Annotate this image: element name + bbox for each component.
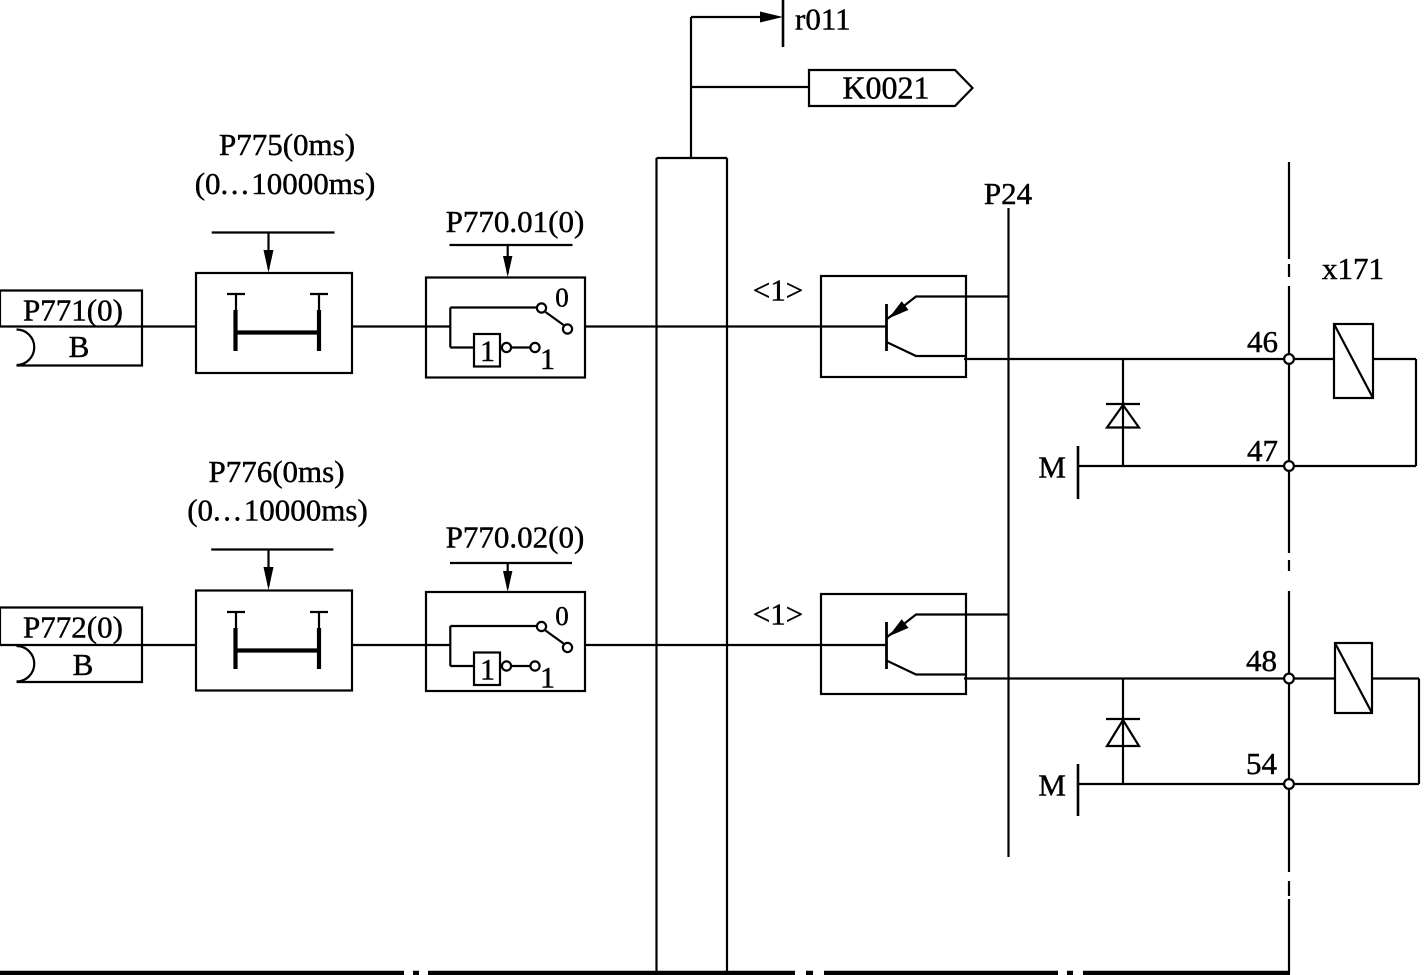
timer T2 symbol base bar <box>234 648 321 652</box>
parameter P770.02 setting line <box>450 562 572 564</box>
diode V4 triangle <box>1107 720 1139 746</box>
parameter P776 arrow stem <box>267 550 269 587</box>
parameter P776 setting line <box>211 548 333 550</box>
wire relay K2 right loop <box>1418 679 1420 785</box>
parameter P770.01 arrow stem <box>507 245 509 273</box>
parameter P775 arrowhead <box>264 250 274 273</box>
timer T1 symbol right stem <box>318 294 320 312</box>
ground M bar row 1 <box>1077 446 1080 499</box>
svg-text:P776(0ms): P776(0ms) <box>208 454 344 489</box>
switch S1 contact circle 1 <box>530 343 539 352</box>
bus junction bar left line <box>655 158 657 973</box>
switch S1 position-1 wire <box>450 346 474 348</box>
transistor V2 input arrow <box>889 619 909 636</box>
connector x171 chain line segment <box>1288 591 1290 872</box>
switch S2 box <box>426 592 585 691</box>
wire P772 to timer T2 <box>0 644 196 646</box>
svg-text:48: 48 <box>1246 643 1277 678</box>
terminal 47 circle <box>1284 461 1294 471</box>
switch S1 inverter box <box>474 334 500 367</box>
diode V3 branch wire <box>1122 359 1124 466</box>
timer T1 symbol right cap <box>310 293 328 295</box>
bottom border segment <box>824 971 1058 975</box>
timer T1 symbol right bar <box>317 310 321 351</box>
switch S2 contact circle 1 <box>530 661 539 670</box>
timer T1 symbol base bar <box>234 330 321 334</box>
transistor V2 collector <box>887 615 1009 638</box>
relay coil K1 diagonal <box>1334 324 1373 398</box>
ground M bar row 2 <box>1077 764 1080 816</box>
parameter P770.01 arrowhead <box>503 256 512 277</box>
binector input block P771 <box>0 291 142 366</box>
svg-text:(0...10000ms): (0...10000ms) <box>195 166 376 201</box>
wire relay K1 right loop <box>1415 359 1417 466</box>
diode V3 cathode bar <box>1106 403 1140 405</box>
parameter P776 arrowhead <box>264 567 274 590</box>
transistor V1 collector <box>887 297 1009 320</box>
wire ground M to terminal 47 and relay K1 return <box>1078 465 1416 467</box>
connector x171 chain line segment <box>1288 162 1290 259</box>
relay coil K2 diagonal <box>1335 643 1372 713</box>
optocoupler V1 box <box>821 276 966 377</box>
parameter P775 setting line <box>212 231 335 233</box>
timer T2 symbol right stem <box>318 612 320 630</box>
parameter P770.02 arrowhead <box>503 571 512 592</box>
bottom border segment <box>0 971 404 975</box>
svg-text:0: 0 <box>555 601 569 631</box>
svg-text:54: 54 <box>1246 746 1278 781</box>
wire bus to r011 branch <box>690 17 692 158</box>
transistor V1 base bar <box>885 304 888 351</box>
svg-text:1: 1 <box>480 654 495 687</box>
wire timer T2 to switch S2 <box>352 644 426 646</box>
switch S2 contact circle 0 <box>537 622 546 631</box>
wire switch S2 output through bus to optocoupler V2 <box>585 644 887 646</box>
svg-text:46: 46 <box>1247 324 1278 359</box>
switch S1 position-0 wire <box>450 306 536 308</box>
timer T2 symbol left cap <box>227 611 245 613</box>
node r011 terminal bar <box>782 0 785 47</box>
wire emitter V2 to terminal 48 and relay K2 <box>964 677 1419 679</box>
transistor V1 emitter <box>887 342 967 356</box>
connector x171 chain line dash <box>1288 264 1290 277</box>
svg-text:1: 1 <box>540 662 555 695</box>
diode V4 branch wire <box>1122 679 1124 785</box>
bottom border dash <box>413 971 419 975</box>
timer T1 symbol left stem <box>235 294 237 312</box>
timer T2 symbol left stem <box>235 612 237 630</box>
svg-text:<1>: <1> <box>753 273 803 308</box>
svg-text:B: B <box>69 329 90 364</box>
switch S1 branch junction <box>449 308 451 348</box>
switch S1 pole circle <box>563 324 572 333</box>
timer T2 symbol right bar <box>317 628 321 669</box>
wire r011 arrow line <box>691 16 776 18</box>
connector x171 chain line dash <box>1288 560 1290 571</box>
switch S1 contact circle 0 <box>537 303 546 312</box>
optocoupler V2 box <box>821 594 966 694</box>
supply rail P24 line <box>1007 208 1009 857</box>
bus junction bar right line <box>726 158 728 973</box>
bottom border segment <box>428 971 795 975</box>
svg-text:1: 1 <box>540 343 555 376</box>
svg-text:(0...10000ms): (0...10000ms) <box>187 493 368 528</box>
binector input block P772 <box>0 608 142 683</box>
timer T2 symbol right cap <box>310 611 328 613</box>
bottom border segment <box>1083 971 1290 975</box>
svg-text:P771(0): P771(0) <box>23 293 123 328</box>
svg-text:<1>: <1> <box>753 597 803 632</box>
svg-text:P24: P24 <box>984 176 1033 211</box>
connector x171 chain line dash <box>1288 881 1290 896</box>
arrowhead to r011 <box>760 12 783 23</box>
switch S2 inverter box <box>474 653 500 686</box>
svg-text:r011: r011 <box>795 2 851 37</box>
bus junction bar top edge <box>657 157 728 159</box>
transistor V2 emitter <box>887 661 967 675</box>
wire P771 to timer T1 <box>0 325 196 327</box>
wire timer T1 to switch S1 <box>352 325 426 327</box>
svg-text:K0021: K0021 <box>842 70 929 106</box>
wire switch S1 output through bus to optocoupler V1 <box>585 325 887 327</box>
connector x171 chain line segment <box>1288 286 1290 553</box>
switch S2 position-1 wire <box>450 665 474 667</box>
timer T2 box <box>196 591 352 691</box>
switch S2 pole circle <box>563 643 572 652</box>
timer T1 box <box>196 273 352 373</box>
wire ground M to terminal 54 and relay K2 return <box>1078 783 1419 785</box>
wire branch to K0021 flag <box>691 86 809 88</box>
diode V4 cathode bar <box>1106 718 1140 720</box>
switch S1 box <box>426 278 585 378</box>
parameter P770.01 setting line <box>450 244 573 246</box>
parameter P775 arrow stem <box>267 233 269 270</box>
wire emitter V1 to terminal 46 and relay K1 <box>964 358 1416 360</box>
svg-text:1: 1 <box>480 335 495 368</box>
diode V3 triangle <box>1107 405 1139 428</box>
svg-text:B: B <box>73 647 94 682</box>
bottom border dash <box>1067 971 1073 975</box>
terminal 54 circle <box>1284 779 1294 789</box>
timer T1 symbol left cap <box>227 293 245 295</box>
svg-text:x171: x171 <box>1322 251 1384 286</box>
svg-text:M: M <box>1038 450 1066 485</box>
connector x171 chain line segment <box>1288 899 1290 973</box>
svg-text:M: M <box>1038 768 1066 803</box>
switch S2 input wire <box>426 644 450 646</box>
switch S1 position-1 link wire <box>512 346 530 348</box>
transistor V1 input arrow <box>889 301 909 318</box>
timer T2 symbol left bar <box>233 628 237 669</box>
svg-text:47: 47 <box>1247 433 1278 468</box>
bottom border dash <box>806 971 813 975</box>
terminal 48 circle <box>1284 674 1294 684</box>
switch S1 inverter output circle <box>502 343 511 352</box>
transistor V2 base bar <box>885 622 888 669</box>
switch S2 moving contact <box>546 631 564 644</box>
terminal 46 circle <box>1284 354 1294 364</box>
svg-text:P772(0): P772(0) <box>23 610 123 645</box>
svg-text:P770.01(0): P770.01(0) <box>446 204 585 239</box>
switch S1 input wire <box>426 325 450 327</box>
connector flag K0021 <box>809 70 973 106</box>
switch S2 branch junction <box>449 626 451 666</box>
switch S2 position-1 link wire <box>512 665 530 667</box>
timer T1 symbol left bar <box>233 310 237 351</box>
switch S2 position-0 wire <box>450 625 536 627</box>
parameter P770.02 arrow stem <box>507 563 509 588</box>
svg-text:P770.02(0): P770.02(0) <box>446 520 585 555</box>
svg-text:P775(0ms): P775(0ms) <box>219 127 355 162</box>
svg-text:0: 0 <box>555 283 569 313</box>
switch S2 inverter output circle <box>502 661 511 670</box>
relay coil K2 box <box>1335 643 1372 713</box>
relay coil K1 box <box>1334 324 1373 398</box>
switch S1 moving contact <box>546 312 564 325</box>
